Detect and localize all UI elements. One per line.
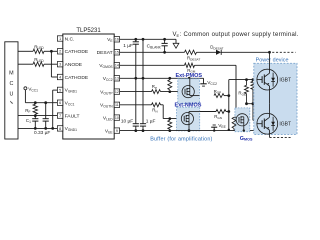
pin 5 VGND1: [57, 87, 62, 92]
svg-text:7: 7: [59, 114, 61, 118]
svg-text:14: 14: [115, 64, 119, 68]
svg-text:10 µF: 10 µF: [121, 119, 133, 125]
svg-text:N.C.: N.C.: [65, 36, 75, 42]
wire RP to PMOS gate: [161, 91, 185, 93]
node cap2 top: [44, 101, 47, 104]
wire VCC2 (pin13): [120, 77, 204, 79]
node feed-emitter crossing: [252, 102, 255, 105]
svg-text:DESAT: DESAT: [97, 50, 113, 56]
Q1 emitter wire: [269, 90, 271, 104]
node pulldown-VEE rail: [168, 129, 171, 132]
node capA-VEE rail: [134, 129, 137, 132]
NMOS source lead: [188, 122, 190, 131]
svg-text:1 µF: 1 µF: [123, 43, 133, 49]
svg-text:1: 1: [59, 37, 61, 41]
wire line B (VE to VEE cap): [142, 39, 144, 123]
pin 1 N.C.: [57, 36, 62, 41]
IC TLP5231 body: [63, 34, 114, 139]
resistor RGM: [185, 63, 195, 67]
pin 3 ANODE: [57, 62, 62, 67]
MCU block: [5, 42, 18, 139]
wire emitter sense: [247, 103, 270, 105]
node VCC2-PMOS source: [188, 77, 191, 80]
node junction pin2: [50, 50, 53, 53]
svg-text:6: 6: [59, 101, 61, 105]
wire gate to IGBT: [229, 79, 257, 81]
node VE-CBLANK: [163, 38, 166, 41]
pin 7 FAULT: [57, 113, 62, 118]
pin 14 VGMOS: [114, 63, 119, 68]
wire RLED2 to pin3: [44, 63, 57, 65]
svg-text:5: 5: [59, 88, 61, 92]
resistor RP: [152, 90, 161, 94]
svg-text:Ext-NMOS: Ext-NMOS: [175, 102, 202, 108]
svg-text:16: 16: [115, 38, 119, 42]
resistor RLED2: [33, 62, 44, 66]
svg-text:M: M: [9, 70, 14, 76]
node C1 bottom: [34, 127, 37, 130]
svg-text:Buffer (for amplification): Buffer (for amplification): [150, 136, 212, 142]
svg-text:IGBT: IGBT: [279, 122, 291, 128]
node VE-capB: [142, 38, 145, 41]
pin 15 DESAT: [114, 50, 119, 55]
power device box: [254, 63, 297, 134]
svg-text:12: 12: [115, 90, 119, 94]
node VE-capA: [134, 38, 137, 41]
capacitor 10uF (lower, line A): [135, 78, 137, 123]
wire pin5 VGND1 to GND rail: [53, 89, 58, 91]
node RF top: [34, 101, 37, 104]
svg-text:4: 4: [59, 75, 61, 79]
svg-text:15: 15: [115, 51, 119, 55]
wire DESAT (pin15): [120, 51, 185, 53]
wire VGMOS (pin14): [120, 64, 185, 66]
svg-text:10: 10: [115, 116, 119, 120]
svg-text:9: 9: [116, 129, 118, 133]
pin 11 VOUTN: [114, 102, 119, 107]
transistor Ext-PMOS: [182, 86, 194, 98]
node gate-RGE: [245, 78, 248, 81]
node gate node-VEE: [228, 129, 230, 131]
wire VCC1 to pin6: [25, 102, 57, 104]
diode DDESAT: [216, 50, 221, 55]
wire VOUTP (pin12): [120, 91, 152, 93]
svg-text:Power device: Power device: [256, 58, 289, 64]
svg-text:U: U: [9, 92, 13, 98]
node GMOS source-VEE: [243, 129, 245, 131]
node CBLANK-DESAT: [163, 51, 166, 54]
pin 9 VEE: [114, 128, 119, 133]
svg-text:FAULT: FAULT: [65, 113, 80, 119]
wire MCU to R_LED1 (pin2 CATHODE): [18, 50, 33, 52]
node pullup-gate wire: [168, 90, 171, 93]
Q2 emitter dashed bus: [270, 136, 292, 138]
wire VOUTN (pin11): [120, 104, 152, 106]
svg-text:CATHODE: CATHODE: [65, 49, 89, 55]
node VEE terminal junction: [213, 129, 215, 131]
svg-text:CATHODE: CATHODE: [65, 75, 89, 81]
wire RGP to gate node: [224, 95, 229, 97]
resistor RLED1: [33, 49, 44, 53]
capacitor 0.33uF bypass: [45, 103, 47, 119]
node lineB-VCC2wire: [142, 77, 145, 80]
capacitor 1uF (lower, line B): [140, 123, 146, 125]
svg-text:VE: VE: [173, 32, 180, 38]
wire RGN left: [200, 111, 216, 113]
resistor RGE: [246, 80, 248, 86]
resistor NMOS gate-source: [168, 120, 172, 129]
node VCC2-pullup: [168, 77, 171, 80]
node pulldown-gate wire: [168, 117, 171, 120]
svg-text:11: 11: [115, 103, 119, 107]
svg-text:IGBT: IGBT: [279, 78, 291, 84]
PMOS source lead: [189, 78, 191, 88]
node gate-bottom gate feed: [252, 78, 255, 81]
transistor Ext-NMOS: [181, 113, 193, 125]
pin 2 CATHODE: [57, 49, 62, 54]
pin 12 VOUTP: [114, 89, 119, 94]
capacitor C1: [34, 116, 36, 119]
Q2 emitter wire: [269, 134, 271, 137]
resistor RGP: [214, 94, 224, 98]
resistor PMOS gate-source: [168, 80, 172, 90]
IGBT Q1 (top): [257, 69, 278, 90]
pin 4 CATHODE: [57, 74, 62, 79]
resistor RDESAT: [185, 50, 197, 54]
PMOS gate lead: [184, 91, 186, 93]
Ext-PMOS box: [178, 79, 200, 104]
wire gate node vertical: [228, 80, 230, 131]
wire DDESAT to power device: [221, 51, 269, 53]
pin 16 VE: [114, 37, 119, 42]
capacitor CBLANK: [164, 39, 166, 43]
Q1 collector wire: [269, 52, 271, 69]
node RGE-emitter wire: [245, 102, 248, 105]
node pin5 line to GND: [51, 127, 54, 130]
pin 6 VCC1: [57, 100, 62, 105]
svg-text:1 µF: 1 µF: [146, 119, 156, 125]
node RF bottom on FAULT wire: [34, 114, 37, 117]
svg-text:ANODE: ANODE: [65, 62, 83, 68]
GMOS source lead: [243, 123, 245, 131]
resistor RGN: [216, 110, 226, 114]
resistor RN: [152, 103, 161, 107]
wire VCC1 terminal down: [24, 90, 26, 103]
svg-text:C: C: [9, 81, 13, 87]
wire RDESAT to DDESAT: [197, 51, 217, 53]
VE terminal symbol: [175, 39, 177, 43]
wire GND MCU to pin8: [18, 127, 57, 129]
svg-text:2: 2: [59, 50, 61, 54]
wire VE rail (pin16): [120, 38, 176, 40]
wire FAULT MCU to pin7: [18, 115, 57, 117]
VEE supply terminal: [213, 127, 215, 130]
svg-text:13: 13: [115, 77, 119, 81]
Q2 collector wire: [269, 104, 271, 114]
node NMOS source-VEE: [188, 129, 191, 132]
node DESAT-collector: [268, 51, 271, 54]
wire junction down to pin4: [50, 51, 52, 77]
svg-text:: Common output power supply t: : Common output power supply terminal.: [180, 32, 299, 38]
NMOS drain lead: [188, 112, 190, 116]
IGBT Q2 (bottom): [257, 113, 278, 134]
wire MCU to R_LED2 (pin3 ANODE): [18, 63, 33, 65]
GMOS box: [235, 108, 250, 132]
node emitter mid: [268, 102, 271, 105]
svg-text:0.33 µF: 0.33 µF: [34, 130, 50, 136]
VCC2 supply terminal: [203, 78, 205, 84]
transistor GMOS: [236, 114, 248, 126]
resistor RF: [33, 104, 37, 114]
svg-text:3: 3: [59, 63, 61, 67]
wire RLED1 to pin2: [44, 50, 57, 52]
capacitor 1uF (VCC2-VE): [135, 39, 137, 42]
node RGP-gate node: [227, 94, 230, 97]
wire RGM to GMOS gate: [195, 64, 237, 66]
VEE rail (pin9): [120, 130, 254, 132]
wire DESAT dashed bus: [272, 51, 295, 53]
node cap2 bottom: [44, 127, 47, 130]
svg-text:Ext-PMOS: Ext-PMOS: [176, 73, 203, 79]
pin 10 VLED: [114, 115, 119, 120]
node capA-VCC2wire: [134, 77, 137, 80]
Ext-NMOS box: [177, 107, 200, 131]
svg-text:TLP5231: TLP5231: [76, 28, 101, 34]
pin 13 VCC2: [114, 76, 119, 81]
PMOS drain lead: [189, 95, 191, 96]
node capB-VEE rail: [142, 129, 145, 132]
wire bottom IGBT gate feed: [251, 81, 255, 89]
wire RN to NMOS gate: [161, 104, 164, 106]
svg-text:8: 8: [59, 127, 61, 131]
wire RGN to gate node: [226, 111, 229, 113]
VCC1 terminal: [24, 87, 27, 90]
GMOS gate pulldown resistor: [234, 116, 236, 118]
pin 8 VGND1: [57, 126, 62, 131]
node RGN-gate node: [227, 110, 230, 113]
